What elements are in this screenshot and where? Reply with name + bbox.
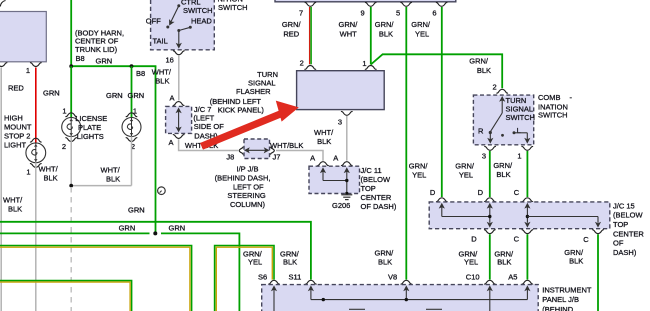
wire RED vertical [35,68,37,144]
svg-text:WHT/: WHT/ [314,128,334,137]
wire GRN/YEL pair down at x190 [0,246,192,311]
J/C 11 (dashed box) [309,166,360,193]
svg-text:WHT/: WHT/ [39,165,59,174]
svg-text:1: 1 [62,106,66,115]
right license lamp connector top [126,113,138,117]
J/C 15 exit connector C2 [592,230,604,234]
svg-text:BLK: BLK [477,66,491,75]
svg-text:GRN/: GRN/ [411,20,431,29]
svg-text:(BEHIND LEFT: (BEHIND LEFT [210,97,262,106]
svg-text:LEFT OF: LEFT OF [233,182,264,191]
svg-text:YEL: YEL [415,29,429,38]
wire GRN horizontal y233 to corner [161,233,239,311]
svg-text:HIGH: HIGH [4,113,23,122]
wire GRN/YEL pair lower-left to bottom [0,281,132,311]
svg-text:SIGNAL: SIGNAL [248,79,276,88]
svg-text:D: D [471,235,477,244]
wire WHT/BLK left edge [0,68,2,311]
instrument panel J/B entry connector A5 [522,280,534,284]
svg-text:(BEHIND: (BEHIND [542,305,573,311]
svg-text:OF DASH): OF DASH) [361,202,397,211]
high mount stop lamp connector bottom [30,164,42,168]
svg-text:2: 2 [493,82,497,91]
svg-text:PANEL J/B: PANEL J/B [542,295,579,304]
svg-text:GRN/: GRN/ [375,20,395,29]
svg-text:J/C 7: J/C 7 [194,105,212,114]
svg-text:G206: G206 [332,201,350,210]
pin 5 exit connector [400,2,412,6]
svg-text:FLASHER: FLASHER [236,87,271,96]
I/P J/B internal arrow [244,147,270,153]
J/C 7 connector entry [173,102,185,106]
turn signal switch internal mechanism [487,96,530,144]
svg-text:J/C 11: J/C 11 [361,166,382,175]
instrument panel J/B entry connector S6 [268,280,280,284]
right license lamp connector bottom [126,138,138,142]
switch lever from ctrl switch [166,4,180,28]
svg-text:BLK: BLK [155,76,169,85]
J/C 15 entry connector C [522,198,534,202]
svg-text:CENTER: CENTER [613,229,644,238]
svg-text:3: 3 [482,152,486,161]
J/C 15 entry connector D [436,198,448,202]
svg-text:YEL: YEL [248,258,262,267]
svg-text:9: 9 [361,9,365,18]
svg-text:C: C [514,235,520,244]
I/P J/B box (dashed) [244,139,270,159]
svg-text:GRN: GRN [128,91,145,100]
pin exit arc for RED wire [30,63,42,67]
svg-text:A5: A5 [508,273,517,282]
wire GRN/BLK pin1 to J/C15 [526,151,528,197]
svg-text:R: R [478,127,484,136]
J/C 7 exit connector [173,135,185,139]
J/C 15 exit connector C [522,230,534,234]
junction dot B8 right [130,64,134,68]
combination switch connector box (top) [275,0,456,2]
svg-text:GRN: GRN [128,205,145,214]
svg-text:COLUMN): COLUMN) [230,200,266,209]
svg-text:SWITCH: SWITCH [538,111,568,120]
wire WHT/BLK below right license lamp [131,136,133,185]
J/C 15 internal wiring [439,203,601,228]
wire GRN/BLK J/C15 down right edge [597,234,599,311]
svg-text:SWITCH: SWITCH [218,3,248,12]
flasher pin 1 entry connector [365,66,377,70]
svg-text:C: C [583,235,589,244]
svg-text:3: 3 [338,117,342,126]
svg-text:OFF: OFF [146,17,161,26]
svg-text:A: A [170,94,175,103]
svg-text:BLK: BLK [106,174,120,183]
wire GRN/YEL pin6 down to J/C15 [441,7,443,197]
wire GRN/BLK pin5 down to V8 [405,7,407,280]
svg-text:(LEFT: (LEFT [193,114,214,123]
junction dot GRN net [153,231,157,235]
turn signal switch pin 1 exit connector [522,146,534,150]
svg-text:6: 6 [432,9,436,18]
left license lamp [62,118,81,137]
svg-text:RED: RED [283,29,299,38]
wire GRN horizontal splice line y66 [71,65,156,67]
wire WHT/BLK from J/C7 to J8 [179,139,238,150]
right license lamp [122,118,141,137]
svg-text:CENTER: CENTER [361,193,392,202]
pin 9 exit connector [365,2,377,6]
svg-text:1: 1 [26,66,30,75]
svg-text:(BEHIND DASH,: (BEHIND DASH, [215,173,271,182]
svg-text:WHT/BLK: WHT/BLK [270,141,303,150]
svg-text:BLK: BLK [283,258,297,267]
svg-text:RED: RED [8,84,24,93]
wire GRN/YEL J/C15 to C10 [489,234,491,279]
junction dot license wires [69,184,73,188]
J/C 15 (dashed box) [429,202,610,229]
flasher pin 2 entry connector [305,66,317,70]
svg-text:I/P J/B: I/P J/B [237,165,259,174]
svg-text:SIDE OF: SIDE OF [194,122,224,131]
instrument panel J/B entry connector S11 [305,280,317,284]
headlight control switch (dashed box) [151,0,215,50]
inline connector circle on GRN vertical [158,187,166,195]
wire WHT/BLK below left license lamp [70,136,72,185]
high mount stop lamp [26,143,46,163]
turn signal switch pin 3 exit connector [484,146,496,150]
svg-text:2: 2 [62,142,66,151]
svg-text:B8: B8 [76,54,85,63]
wire GRN/YEL pair to S6 [215,246,274,311]
turn signal switch entry connector [496,89,508,93]
svg-text:BLK: BLK [496,170,510,179]
svg-text:A: A [333,154,338,163]
svg-text:MOUNT: MOUNT [4,122,32,131]
svg-text:BLK: BLK [44,174,58,183]
svg-text:TURN: TURN [257,70,278,79]
svg-text:HEAD: HEAD [191,17,212,26]
ground G206 symbol [341,195,352,200]
svg-text:LICENSE: LICENSE [75,114,107,123]
svg-text:OF: OF [613,239,624,248]
J/C 11 internal wiring [320,167,350,195]
svg-text:GRN/: GRN/ [282,20,302,29]
J/C 11 entry connector right [341,162,353,166]
svg-text:BLK: BLK [8,204,22,213]
svg-text:GRN: GRN [96,56,113,65]
instrument panel J/B (dashed box) [262,285,539,311]
wire GRN horizontal y222 to S11 [0,222,311,280]
svg-text:A: A [310,154,315,163]
svg-text:GRN: GRN [119,224,136,233]
wire GRN to left license lamp [70,66,72,118]
svg-text:B8: B8 [136,69,145,78]
J7 connector arc [271,147,275,155]
J/C 7 (dashed box) [166,106,192,133]
svg-text:YEL: YEL [412,170,426,179]
svg-text:2: 2 [300,58,304,67]
J8 connector arc [239,147,243,155]
turn signal flasher box [297,71,385,110]
svg-text:YEL: YEL [464,258,478,267]
svg-text:BLK: BLK [379,29,393,38]
wire GRN/WHT pin9 to flasher pin1 [370,7,372,65]
svg-text:KICK PANEL): KICK PANEL) [218,106,265,115]
svg-text:V8: V8 [388,273,397,282]
svg-text:A: A [169,138,174,147]
svg-text:WHT/: WHT/ [101,165,121,174]
svg-text:(BELOW: (BELOW [361,175,392,184]
svg-text:J7: J7 [273,152,281,161]
svg-text:C10: C10 [466,273,480,282]
svg-text:LIGHT: LIGHT [4,140,27,149]
svg-text:PLATE: PLATE [78,123,101,132]
wire WHT/BLK horizontal merge [71,185,131,187]
svg-text:GRN/: GRN/ [493,161,513,170]
svg-text:BLK: BLK [497,258,511,267]
svg-text:D: D [478,188,484,197]
svg-text:LIGHTS: LIGHTS [77,132,104,141]
instrument panel J/B entry connector V8 [401,280,413,284]
wire GRN vertical from top edge to splice B8 [70,0,72,66]
svg-text:TOP: TOP [613,220,628,229]
svg-text:7: 7 [299,9,303,18]
instrument panel J/B internal wiring [271,285,531,311]
junction dot B8 left [69,64,73,68]
wire WHT/BLK pin16 down [178,55,180,100]
switch tail contact [176,26,192,49]
svg-text:WHT: WHT [340,29,357,38]
connector box (rear body, top-left) [0,1,46,62]
instrument panel J/B entry connector C10 [484,280,496,284]
svg-text:1: 1 [362,59,366,68]
wire GRN long vertical x155.5 [155,66,157,232]
left license lamp connector bottom [65,138,77,142]
wire WHT/BLK from J7 to J/C11 [276,151,323,161]
svg-text:SWITCH: SWITCH [506,113,536,122]
svg-text:STEERING: STEERING [227,191,266,200]
svg-text:YEL: YEL [459,170,473,179]
svg-text:S11: S11 [289,273,302,282]
red arrow pointing to flasher [200,101,299,150]
svg-text:D: D [430,188,436,197]
svg-text:GRN/: GRN/ [469,56,489,65]
J/C 7 internal arrow [176,107,182,132]
wire WHT/BLK below stop lamp [35,162,37,311]
svg-text:WHT/: WHT/ [152,67,172,76]
svg-text:GRN: GRN [106,91,123,100]
pin 16 exit connector [173,51,185,55]
svg-text:L: L [517,126,521,135]
svg-text:BLK: BLK [569,257,583,266]
J/C 15 entry connector D2 [484,198,496,202]
wire GRN branch to turn signal switch [371,54,502,88]
pin 6 exit connector [436,2,448,6]
svg-text:BLK: BLK [317,137,331,146]
wire GRN/YEL pin3 to J/C15 [489,151,491,197]
svg-text:J8: J8 [226,152,234,161]
high mount stop lamp connector top [30,138,42,142]
svg-text:1: 1 [26,167,30,176]
svg-text:BLK: BLK [378,257,392,266]
svg-text:GRN/: GRN/ [339,20,359,29]
svg-text:GRN: GRN [43,88,60,97]
svg-text:C: C [514,188,520,197]
turn signal switch (dashed box) [473,95,533,145]
svg-text:TRUNK LID): TRUNK LID) [75,45,118,54]
svg-text:GRN/: GRN/ [455,161,475,170]
svg-text:(BELOW: (BELOW [613,211,644,220]
svg-text:DASH): DASH) [613,248,637,257]
svg-text:GRN: GRN [169,224,186,233]
wire GRN to right license lamp [131,66,133,118]
svg-text:GRN/: GRN/ [409,161,429,170]
wire GRN/RED pin7 to flasher pin2 [310,7,312,64]
svg-text:S6: S6 [258,273,267,282]
svg-text:TAIL: TAIL [153,36,168,45]
wire GRN/BLK J/C15 to A5 [526,234,528,279]
J/C 15 exit connector D [484,230,496,234]
svg-text:WHT/: WHT/ [3,195,23,204]
svg-text:COMB: COMB [538,93,561,102]
svg-text:1: 1 [517,152,521,161]
pin exit arc (left, partially cut) [0,63,7,67]
J/C 11 entry connector left [317,162,329,166]
wire GRN horizontal y233 (left of dot) [0,232,150,234]
svg-text:16: 16 [166,56,174,65]
svg-text:INSTRUMENT: INSTRUMENT [542,286,592,295]
wire WHT/BLK dashed down [70,187,72,311]
svg-text:J/C 15: J/C 15 [613,201,635,210]
flasher pin 3 exit connector [341,111,353,115]
svg-text:STOP 2: STOP 2 [4,131,30,140]
svg-text:5: 5 [396,9,400,18]
svg-text:TOP: TOP [361,184,376,193]
left license lamp connector top [65,113,77,117]
svg-text:SWITCH: SWITCH [183,6,213,15]
wire WHT/BLK flasher pin3 down [346,116,348,161]
pin 7 exit connector [305,2,317,6]
